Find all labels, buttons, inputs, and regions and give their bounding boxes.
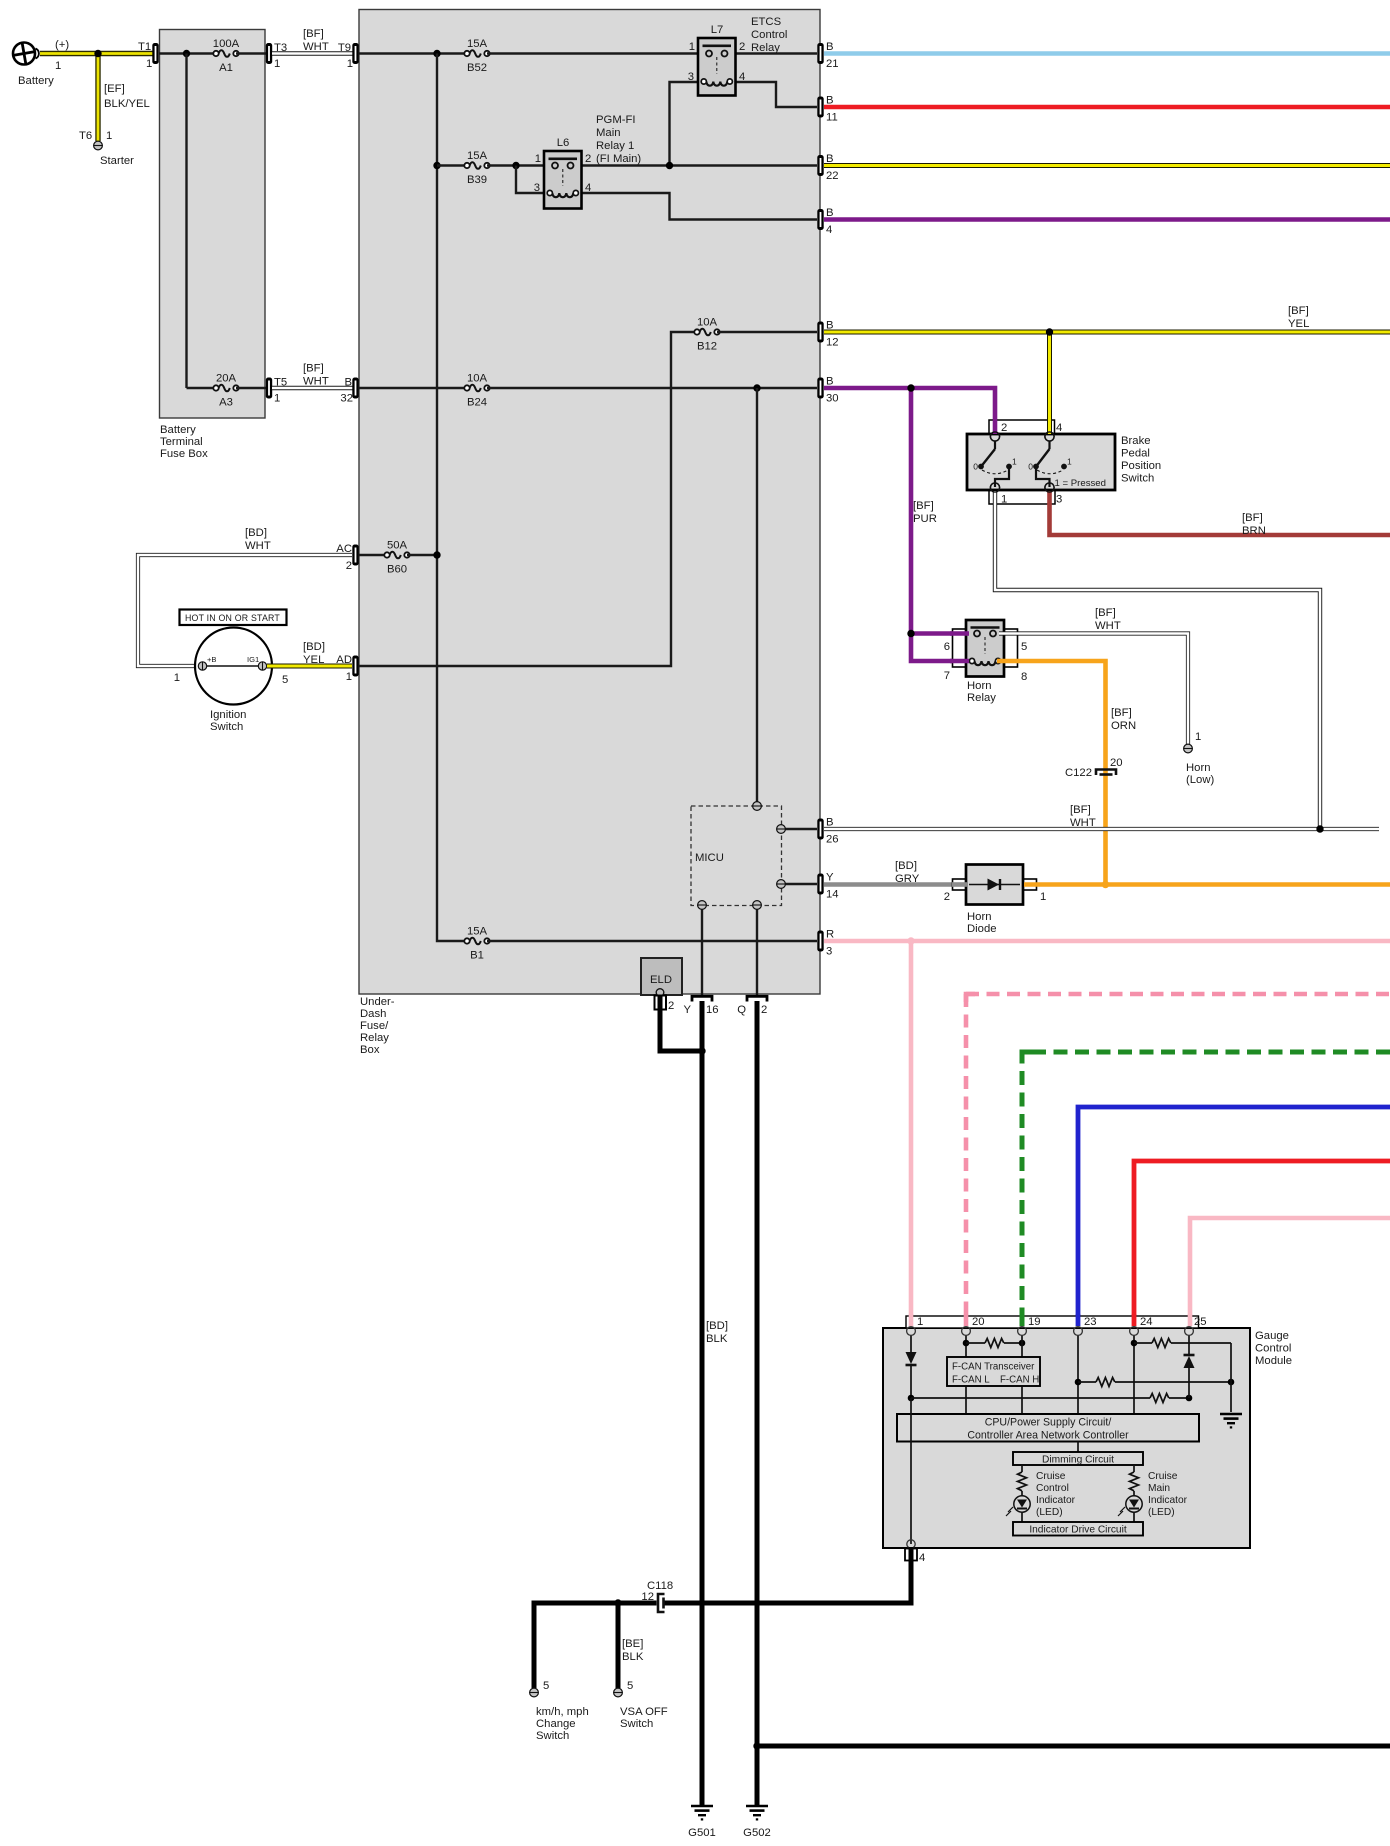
svg-text:Fuse/: Fuse/ <box>360 1020 389 1032</box>
svg-text:[BD]: [BD] <box>303 641 325 653</box>
wire fuse B52 to relay L7 pin 1 <box>487 52 706 54</box>
svg-text:G502: G502 <box>743 1827 771 1839</box>
svg-text:Relay: Relay <box>751 42 780 54</box>
junction row C right <box>1186 1395 1193 1402</box>
svg-text:3: 3 <box>1056 494 1062 506</box>
svg-text:YEL: YEL <box>303 654 324 666</box>
svg-text:25: 25 <box>1194 1316 1207 1328</box>
label [BF] PUR <box>913 500 937 525</box>
ELD box <box>641 958 682 996</box>
svg-text:[BD]: [BD] <box>706 1320 728 1332</box>
svg-text:GRY: GRY <box>895 873 920 885</box>
svg-text:1: 1 <box>146 58 152 70</box>
label [BD] BLK <box>706 1320 728 1345</box>
wire PUR branch down to horn relay <box>911 388 968 661</box>
svg-text:1: 1 <box>274 58 280 70</box>
fuse A1 100A <box>213 50 238 57</box>
wire PNK to gauge pin 25 <box>1190 1218 1390 1326</box>
wire row A right with resistor <box>1134 1339 1231 1348</box>
junction row C left <box>908 1395 915 1402</box>
svg-text:B12: B12 <box>697 341 717 353</box>
svg-text:20: 20 <box>1110 757 1123 769</box>
starter terminal <box>94 141 103 150</box>
wire GRN dashed to gauge pin 19 <box>1022 1052 1390 1326</box>
wire BLK Q2 to G502 <box>755 1001 760 1806</box>
wire WHT B26 <box>824 827 1379 831</box>
wire diode to row C <box>1188 1368 1190 1398</box>
relay L6 PGM-FI main relay 1 <box>544 151 582 209</box>
wire YEL to brake switch pin 4 <box>1047 332 1052 437</box>
svg-text:1: 1 <box>1040 891 1046 903</box>
svg-text:1: 1 <box>1067 457 1072 467</box>
wire MICU to B26 <box>781 828 817 830</box>
junction row B right <box>1228 1379 1235 1386</box>
svg-text:[BE]: [BE] <box>622 1638 643 1650</box>
junction battery wire <box>94 50 101 57</box>
svg-text:CPU/Power Supply Circuit/: CPU/Power Supply Circuit/ <box>985 1417 1112 1429</box>
wire L6 coil feed pin 3 <box>516 166 552 194</box>
junction BLK ELD <box>698 1047 705 1054</box>
svg-text:Horn: Horn <box>967 680 992 692</box>
wire MICU feed vertical <box>756 388 758 806</box>
svg-text:23: 23 <box>1084 1316 1097 1328</box>
junction trunk at B39 <box>433 162 440 169</box>
wire fuse A3 to T5 <box>236 387 266 389</box>
svg-text:20A: 20A <box>216 373 237 385</box>
gauge pin 25 circle <box>1185 1327 1194 1336</box>
wire F-CAN L to CPU <box>965 1387 967 1415</box>
ELD pin 2 connector <box>655 996 675 1013</box>
svg-text:[BF]: [BF] <box>1242 512 1263 524</box>
svg-text:WHT: WHT <box>1095 620 1121 632</box>
svg-text:12: 12 <box>826 337 839 349</box>
svg-text:20: 20 <box>972 1316 985 1328</box>
brake pedal position switch <box>967 420 1115 504</box>
gauge pin 23 circle <box>1074 1327 1083 1336</box>
svg-text:(FI Main): (FI Main) <box>596 153 641 165</box>
wire WHT horn relay pin 5 to horn <box>999 634 1188 745</box>
gauge control module box <box>883 1328 1250 1548</box>
svg-text:Switch: Switch <box>536 1730 569 1742</box>
wire trunk to fuse B39 <box>437 164 466 166</box>
svg-text:Pedal: Pedal <box>1121 448 1150 460</box>
MICU terminal Y14 <box>777 880 786 889</box>
connector B11 <box>817 97 823 118</box>
svg-text:B60: B60 <box>387 564 407 576</box>
svg-text:A1: A1 <box>219 62 233 74</box>
svg-text:Y: Y <box>826 872 834 884</box>
wire row C with resistor <box>911 1394 1189 1403</box>
svg-text:WHT: WHT <box>1070 817 1096 829</box>
svg-text:ORN: ORN <box>1111 720 1136 732</box>
svg-text:T6: T6 <box>79 130 92 142</box>
svg-text:Horn: Horn <box>967 911 992 923</box>
svg-text:[BF]: [BF] <box>303 28 324 40</box>
MICU terminal top <box>753 802 762 811</box>
svg-text:C122: C122 <box>1065 767 1092 779</box>
junction battery box trunk <box>183 50 190 57</box>
svg-text:1: 1 <box>347 58 353 70</box>
wire MICU to Q2 <box>756 905 758 996</box>
label PGM-FI Main Relay 1 (FI Main) <box>596 114 641 165</box>
gauge module pin 4 circle <box>907 1540 915 1548</box>
junction row A left 2 <box>1019 1340 1026 1347</box>
label [BF] WHT <box>303 28 329 53</box>
svg-text:F-CAN H: F-CAN H <box>1000 1375 1039 1386</box>
wire PUR stub horn relay pin 6 <box>950 631 969 636</box>
wire RED stub pin 24 through header <box>1132 1314 1137 1326</box>
svg-text:Relay: Relay <box>967 692 996 704</box>
svg-text:F-CAN L: F-CAN L <box>952 1375 990 1386</box>
svg-text:B52: B52 <box>467 62 487 74</box>
wire T1 to fuse A1 <box>159 52 215 54</box>
wire gauge pin 20 <box>965 1335 967 1358</box>
wire MICU to Y16 <box>701 905 703 996</box>
connector T3 <box>266 43 272 64</box>
svg-text:BRN: BRN <box>1242 525 1266 537</box>
wire PNK R3 <box>824 939 1390 944</box>
label [BF] WHT <box>1095 607 1121 632</box>
wire PUR B4 <box>824 217 1390 222</box>
svg-text:[EF]: [EF] <box>104 83 125 95</box>
fuse B1 15A <box>464 938 489 945</box>
label [BF] YEL <box>1288 305 1309 330</box>
svg-text:2: 2 <box>761 1004 767 1016</box>
svg-text:19: 19 <box>1028 1316 1041 1328</box>
svg-text:BLK: BLK <box>622 1651 644 1663</box>
svg-text:Fuse Box: Fuse Box <box>160 448 208 460</box>
MICU dashed box <box>691 806 782 906</box>
svg-text:3: 3 <box>534 182 540 194</box>
svg-text:30: 30 <box>826 393 839 405</box>
svg-text:5: 5 <box>627 1680 633 1692</box>
svg-text:24: 24 <box>1140 1316 1153 1328</box>
svg-text:VSA OFF: VSA OFF <box>620 1706 668 1718</box>
wire BLK/YEL battery to T1 <box>40 51 153 56</box>
svg-text:26: 26 <box>826 834 839 846</box>
junction row A left 1 <box>963 1340 970 1347</box>
svg-text:B24: B24 <box>467 397 487 409</box>
wire AD to B12 fuse <box>359 332 696 666</box>
svg-text:Dash: Dash <box>360 1008 386 1020</box>
gauge pin 1 circle <box>907 1327 916 1336</box>
svg-text:Cruise: Cruise <box>1148 1471 1178 1482</box>
svg-text:5: 5 <box>543 1680 549 1692</box>
svg-text:1: 1 <box>1195 731 1201 743</box>
connector C118 pin 12 <box>657 1593 665 1613</box>
label Ignition Switch <box>210 709 246 733</box>
gauge module pin header <box>906 1316 1199 1328</box>
svg-text:Switch: Switch <box>620 1718 653 1730</box>
svg-text:Horn: Horn <box>1186 762 1211 774</box>
wire GRY stub into horn diode housing <box>952 882 967 887</box>
fuse B39 15A <box>464 162 489 169</box>
battery B1 symbol <box>11 41 39 66</box>
svg-text:3: 3 <box>688 71 694 83</box>
wire RED to gauge pin 24 <box>1134 1161 1390 1326</box>
label [BD] YEL <box>303 641 325 666</box>
svg-text:4: 4 <box>739 71 745 83</box>
svg-text:[BF]: [BF] <box>913 500 934 512</box>
svg-text:ETCS: ETCS <box>751 16 782 28</box>
svg-text:7: 7 <box>944 670 950 682</box>
junction BLK switches <box>614 1599 621 1606</box>
svg-text:2: 2 <box>1001 422 1007 434</box>
svg-text:Relay: Relay <box>360 1032 389 1044</box>
svg-text:AD: AD <box>336 654 352 666</box>
svg-text:HOT IN ON OR START: HOT IN ON OR START <box>185 613 280 623</box>
label [BF] WHT <box>1070 804 1096 829</box>
svg-text:Main: Main <box>1148 1483 1170 1494</box>
wire MICU to Y14 <box>781 883 817 885</box>
svg-text:1: 1 <box>1012 457 1017 467</box>
connector Y14 <box>817 874 823 895</box>
horn diode <box>953 865 1037 905</box>
svg-text:6: 6 <box>944 641 950 653</box>
horn (low) terminal <box>1184 744 1193 753</box>
wire BLU stub pin 23 through header <box>1076 1314 1081 1326</box>
wire YEL B22 <box>824 163 1390 168</box>
wire dimming to LED resistor right <box>1133 1465 1135 1472</box>
svg-text:km/h, mph: km/h, mph <box>536 1706 589 1718</box>
junction PUR B30 <box>907 384 914 391</box>
F-CAN transceiver box <box>947 1357 1040 1386</box>
wire fuse B39 to L6 pin 1 <box>487 164 556 166</box>
svg-text:[BD]: [BD] <box>895 860 917 872</box>
wire LT BLU B21 <box>824 51 1390 56</box>
junction L7 pin3 / L6 pin2 <box>666 162 673 169</box>
LED cruise main indicator <box>1118 1496 1142 1516</box>
wire dimming to LED resistor left <box>1021 1465 1023 1472</box>
svg-text:Position: Position <box>1121 460 1161 472</box>
fuse B24 10A <box>464 385 489 392</box>
svg-text:Switch: Switch <box>1121 473 1154 485</box>
svg-text:1: 1 <box>535 153 541 165</box>
svg-text:Battery: Battery <box>160 424 196 436</box>
MICU terminal B26 <box>777 825 786 834</box>
km/h mph change switch terminal <box>530 1688 539 1697</box>
horn relay <box>953 620 1018 677</box>
wire YEL IG1 to AD <box>267 664 352 669</box>
svg-text:F-CAN Transceiver: F-CAN Transceiver <box>952 1362 1035 1373</box>
connector B30 <box>817 378 823 399</box>
svg-text:8: 8 <box>1021 671 1027 683</box>
svg-text:Dimming Circuit: Dimming Circuit <box>1042 1455 1114 1466</box>
wire fuse B1 to R3 connector <box>487 940 817 942</box>
label Cruise Main Indicator (LED) <box>1148 1471 1188 1518</box>
svg-text:2: 2 <box>346 560 352 572</box>
wire T9 to fuse B52 <box>359 52 466 54</box>
wire CPU to dimming circuit <box>1077 1442 1079 1453</box>
label km/h, mph Change Switch <box>536 1706 589 1742</box>
label ETCS Control Relay <box>751 16 787 54</box>
svg-text:4: 4 <box>1056 422 1062 434</box>
svg-text:4: 4 <box>919 1552 925 1564</box>
junction ORN <box>1102 881 1109 888</box>
wire AC to fuse B60 <box>359 554 386 556</box>
svg-text:2: 2 <box>739 41 745 53</box>
svg-text:(LED): (LED) <box>1036 1507 1063 1518</box>
resistor LED right <box>1130 1472 1139 1491</box>
svg-text:WHT: WHT <box>303 41 329 53</box>
wire fuse B60 to trunk <box>407 554 437 556</box>
label Horn (Low) <box>1186 762 1214 786</box>
junction row A right <box>1131 1340 1138 1347</box>
svg-text:PGM-FI: PGM-FI <box>596 114 636 126</box>
svg-text:2: 2 <box>668 1000 674 1012</box>
svg-text:Starter: Starter <box>100 155 134 167</box>
battery terminal fuse box label <box>160 424 208 460</box>
svg-text:Under-: Under- <box>360 996 395 1008</box>
svg-text:2: 2 <box>944 891 950 903</box>
svg-text:1: 1 <box>689 41 695 53</box>
svg-text:Diode: Diode <box>967 923 997 935</box>
resistor row A left <box>966 1339 1022 1348</box>
wire trunk A3 row <box>187 387 216 389</box>
svg-text:Controller Area Network Contro: Controller Area Network Controller <box>967 1430 1129 1442</box>
gauge pin 19 circle <box>1018 1327 1027 1336</box>
wire BLK VSA OFF branch <box>616 1603 621 1688</box>
connector B4 <box>817 209 823 230</box>
svg-text:1 = Pressed: 1 = Pressed <box>1055 478 1106 489</box>
svg-text:T1: T1 <box>138 41 151 53</box>
wire fuse A1 to T3 <box>236 52 266 54</box>
svg-text:0: 0 <box>1028 462 1033 472</box>
wire to LED right <box>1133 1491 1135 1496</box>
wire L7 pin 4 to B11 <box>728 82 817 107</box>
svg-text:10A: 10A <box>467 373 488 385</box>
ignition IG1 terminal <box>258 662 266 670</box>
svg-text:[BF]: [BF] <box>303 363 324 375</box>
svg-text:15A: 15A <box>467 150 488 162</box>
svg-text:1: 1 <box>346 671 352 683</box>
svg-text:0: 0 <box>973 462 978 472</box>
connector T9 <box>352 43 358 64</box>
wire F-CAN H to CPU <box>1021 1387 1023 1415</box>
fuse B60 50A <box>384 552 409 559</box>
wire PNK dashed to gauge pin 20 <box>966 994 1390 1326</box>
diode D2 on pin 25 <box>1184 1355 1195 1368</box>
connector T5 <box>266 378 272 399</box>
wire PUR stub horn relay pin 7 <box>950 659 969 664</box>
wire B32 to fuse B24 <box>359 387 466 389</box>
junction PUR horn relay <box>907 630 914 637</box>
under-dash fuse/relay box <box>359 10 820 995</box>
CPU box <box>897 1414 1199 1442</box>
wire GRY Y14 to horn diode <box>824 882 964 887</box>
internal ground <box>1220 1414 1242 1427</box>
wire fuse B12 to B12 connector <box>717 331 817 333</box>
wire WHT brake pin 1 to B26 row <box>995 504 1320 829</box>
wire PNK dashed stub pin 20 through header <box>964 1314 969 1326</box>
VSA OFF switch terminal <box>614 1688 623 1697</box>
diode D1 on pin 1 <box>906 1352 917 1365</box>
wire BRN stub brake pin 3 <box>1047 491 1052 505</box>
wire ORN horn diode output <box>1024 882 1390 887</box>
wire PNK stub pin 1 through header <box>909 1314 914 1326</box>
wire L6 pin 4 to B4 <box>573 193 817 220</box>
label VSA OFF Switch <box>620 1706 668 1730</box>
wire WHT ignition +B to AC <box>138 555 352 666</box>
svg-text:Y: Y <box>683 1004 691 1016</box>
svg-text:12: 12 <box>641 1591 654 1603</box>
wire PNK dashed corner patch <box>966 994 975 1002</box>
svg-text:MICU: MICU <box>695 852 724 864</box>
svg-text:5: 5 <box>1021 641 1027 653</box>
svg-text:(LED): (LED) <box>1148 1507 1175 1518</box>
svg-text:T9: T9 <box>338 42 351 54</box>
wire BLK Y16 to G501 <box>700 1001 705 1806</box>
svg-text:15A: 15A <box>467 38 488 50</box>
wire YEL stub brake pin 4 <box>1047 419 1052 434</box>
svg-text:Terminal: Terminal <box>160 436 203 448</box>
wire to internal ground <box>1230 1343 1232 1412</box>
gauge pin 24 circle <box>1130 1327 1139 1336</box>
svg-text:Battery: Battery <box>18 75 54 87</box>
connector AD <box>352 656 358 677</box>
svg-text:Indicator Drive Circuit: Indicator Drive Circuit <box>1029 1525 1127 1536</box>
svg-text:Indicator: Indicator <box>1148 1495 1188 1506</box>
wire PUR horn relay pin 6 <box>911 631 968 636</box>
label [BF] WHT <box>303 363 329 388</box>
svg-text:Gauge: Gauge <box>1255 1330 1289 1342</box>
svg-text:4: 4 <box>826 224 832 236</box>
svg-text:Indicator: Indicator <box>1036 1495 1076 1506</box>
junction PNK <box>907 937 914 944</box>
svg-text:Box: Box <box>360 1044 380 1056</box>
wire YEL B12 <box>824 330 1390 335</box>
svg-text:1: 1 <box>55 60 61 72</box>
svg-text:A3: A3 <box>219 397 233 409</box>
junction BLK G502 branch <box>753 1742 760 1749</box>
resistor LED left <box>1018 1472 1027 1491</box>
fuse B52 15A <box>464 50 489 57</box>
wire L6 pin 2 to B22 <box>573 164 817 166</box>
svg-text:Control: Control <box>1036 1483 1069 1494</box>
wire WHT T5 to B32 <box>272 386 353 391</box>
svg-text:100A: 100A <box>213 38 240 50</box>
LED cruise control indicator <box>1006 1496 1030 1516</box>
wire diode to row C <box>910 1366 912 1398</box>
wire PUR B30 to brake switch pin 2 <box>824 388 995 437</box>
label Cruise Control Indicator (LED) <box>1036 1471 1076 1518</box>
wire PNK stub pin 25 through header <box>1188 1314 1193 1326</box>
ignition +B terminal <box>198 662 206 670</box>
HOT IN ON OR START box <box>180 610 287 626</box>
label [BF] ORN <box>1111 707 1136 732</box>
svg-text:14: 14 <box>826 889 839 901</box>
wire BLK gauge pin 4 to switches <box>534 1547 911 1688</box>
svg-text:L7: L7 <box>711 24 724 36</box>
junction WHT B26 <box>1316 825 1323 832</box>
ignition switch <box>195 628 272 705</box>
svg-text:16: 16 <box>706 1004 719 1016</box>
battery terminal fuse box <box>160 30 266 419</box>
wire gauge pin 24 <box>1133 1335 1135 1414</box>
label [BD] GRY <box>895 860 920 885</box>
svg-text:(+): (+) <box>55 39 69 51</box>
svg-text:[BF]: [BF] <box>1070 804 1091 816</box>
label Brake Pedal Position Switch <box>1121 435 1161 485</box>
wire RED B11 <box>824 105 1390 110</box>
connector C122 pin 20 <box>1096 770 1116 776</box>
svg-text:1: 1 <box>917 1316 923 1328</box>
label [BE] BLK <box>622 1638 644 1663</box>
svg-text:IG1: IG1 <box>247 655 259 664</box>
junction trunk at B52 <box>433 50 440 57</box>
indicator drive circuit box <box>1013 1522 1143 1536</box>
connector Q2 <box>747 996 767 1001</box>
